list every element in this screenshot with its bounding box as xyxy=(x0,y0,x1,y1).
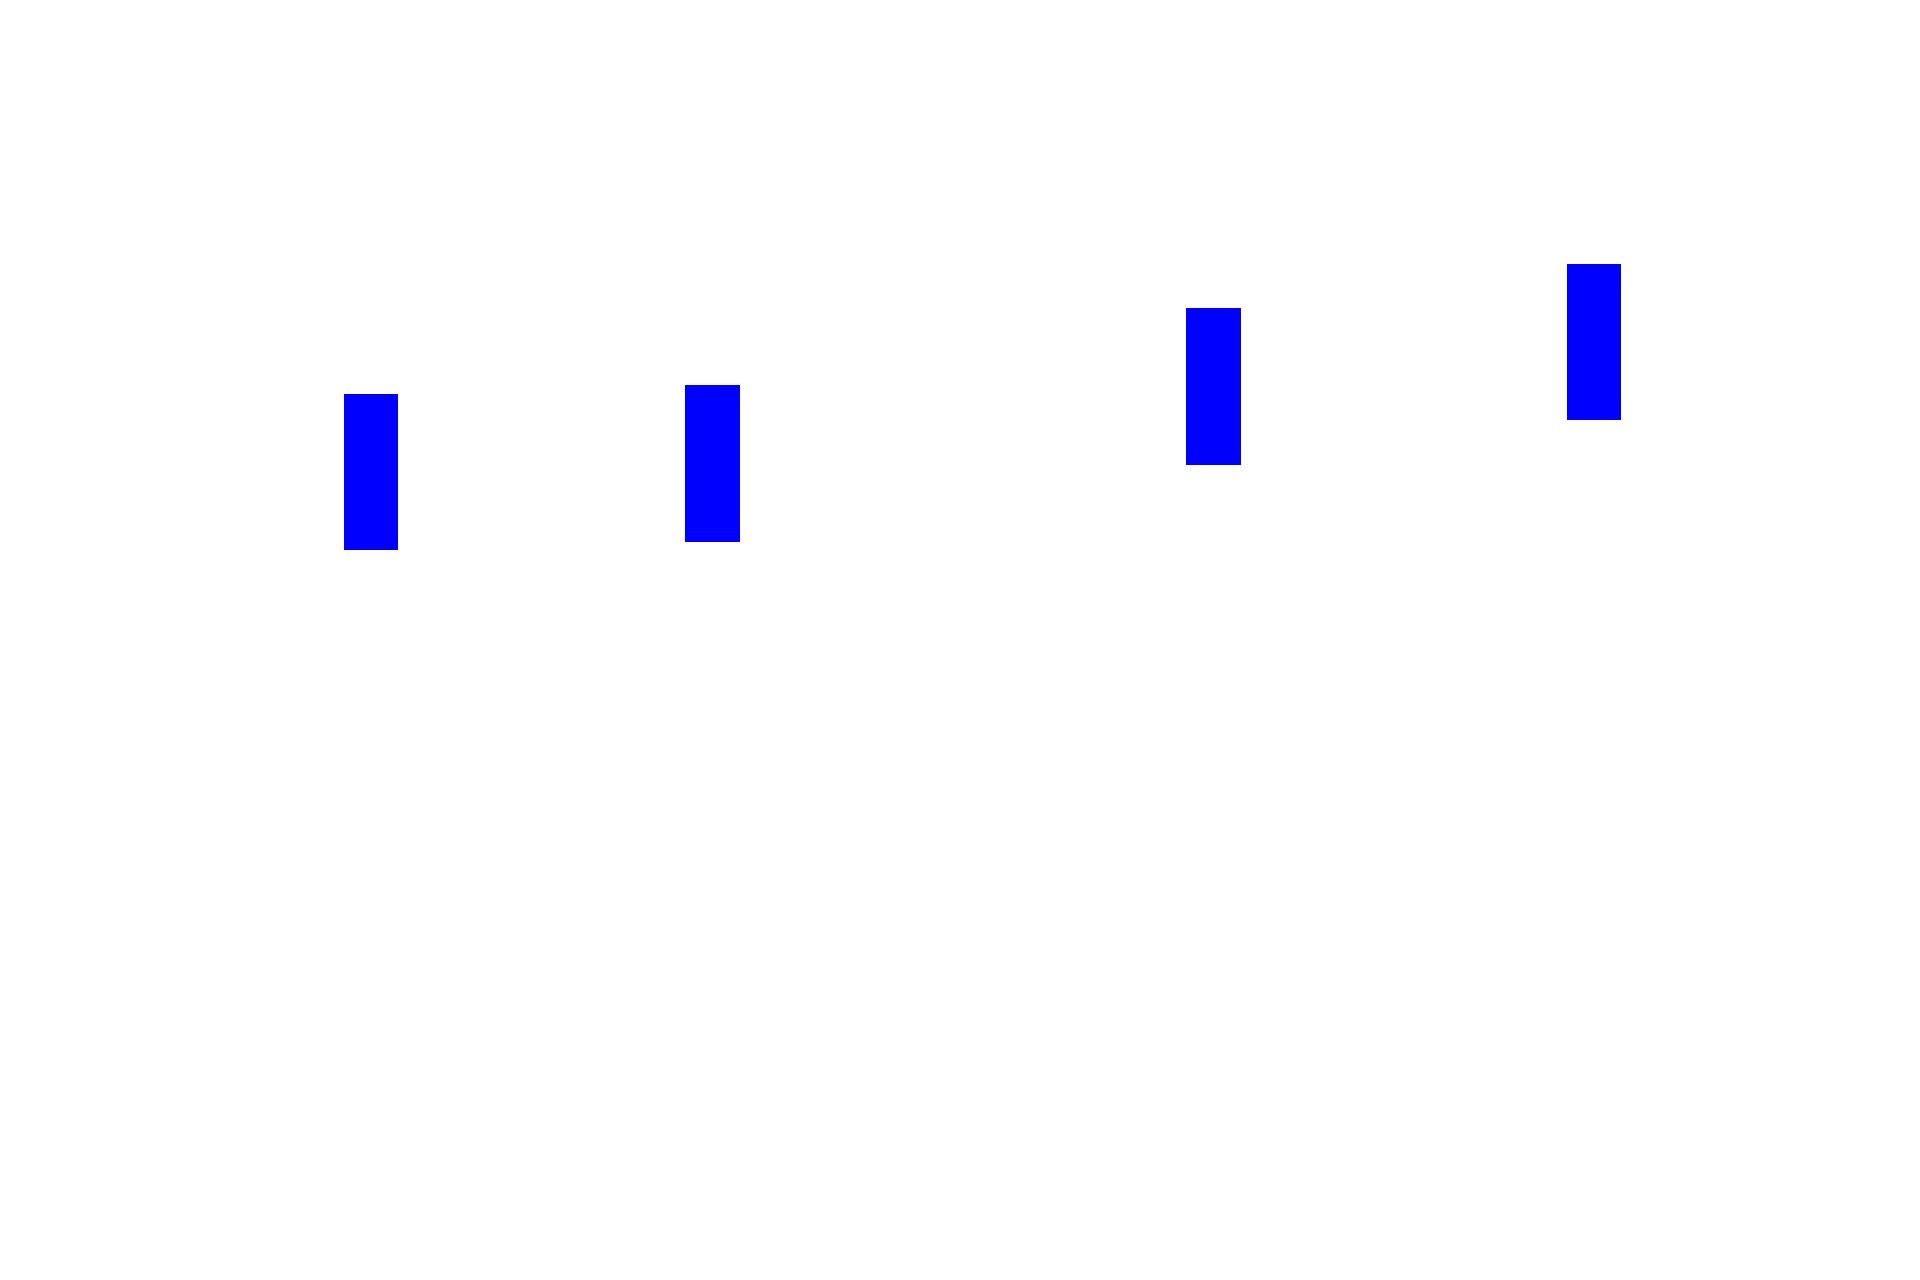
bar 2 xyxy=(685,385,740,542)
bar 4 xyxy=(1567,264,1621,420)
bar 1 xyxy=(344,394,398,550)
bar 3 xyxy=(1186,308,1241,465)
